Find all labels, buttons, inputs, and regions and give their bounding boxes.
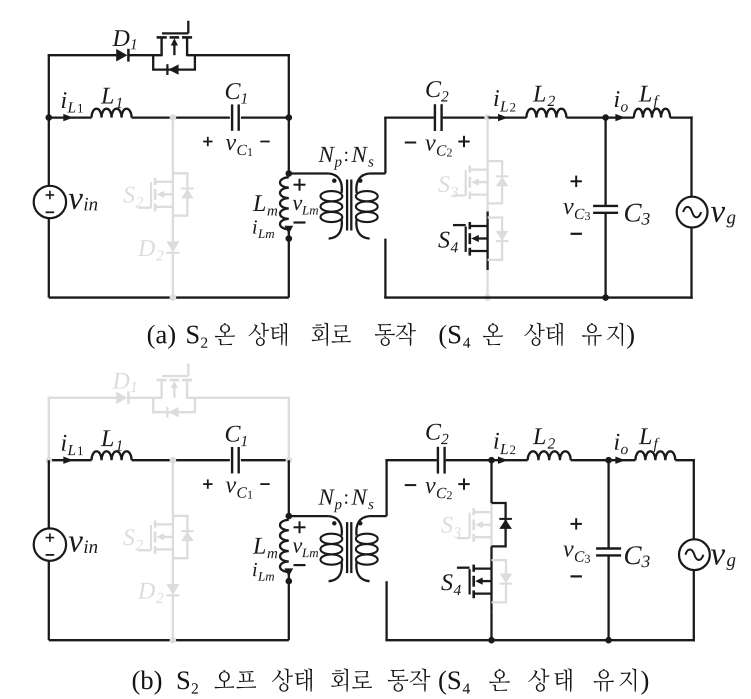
wire: left rail top segment [48, 55, 50, 117]
wire: right rail bottom [690, 227, 692, 298]
wire: top branch horizontal [48, 397, 117, 399]
label S2 [123, 529, 134, 545]
label C2 [426, 81, 441, 97]
inductor Lf [635, 451, 675, 460]
transformer primary winding [289, 515, 329, 517]
label S4 [438, 232, 449, 248]
wire: branch node to L2 [492, 459, 528, 461]
wire: top branch horizontal [48, 54, 117, 56]
node: main-right junction [286, 114, 293, 121]
label vin [69, 194, 83, 209]
label vC2 with - + [405, 484, 416, 486]
current arrow iLm (down) [288, 572, 290, 581]
node: Lm bottom [286, 235, 293, 242]
wire: bottom left [49, 296, 289, 298]
wire: main line left [49, 116, 92, 118]
wire: main line middle [132, 116, 230, 118]
label C1 [226, 426, 241, 442]
transistor S3 (gray) [470, 168, 488, 170]
node: main-left junction [46, 114, 53, 121]
wire: secondary bottom lead [385, 581, 387, 640]
label vC3 with + - [571, 523, 582, 525]
current arrow iL1 [63, 114, 73, 121]
wire: C2 to branch node [446, 459, 492, 461]
wire: main line right [241, 116, 289, 118]
diode D2 (gray) [166, 584, 179, 595]
wire: main line left [49, 459, 92, 461]
capacitor C1 [231, 104, 233, 130]
wire: D2 to bottom [172, 595, 174, 640]
inductor Lm (magnetizing) [280, 177, 289, 229]
label vg [711, 207, 725, 222]
wire: C3 bottom [607, 556, 609, 640]
voltage source vin [34, 528, 66, 560]
label D1 [112, 30, 129, 46]
wire: left rail bottom [48, 560, 50, 640]
transformer core [346, 522, 348, 573]
diode D2 (gray) [166, 241, 179, 252]
label io [615, 91, 620, 107]
inductor L1 [92, 109, 132, 118]
diode D1 [116, 49, 127, 62]
wire: C3 top [607, 460, 609, 547]
wire: S2 branch upper [172, 118, 174, 170]
inductor Lm (magnetizing) [280, 520, 289, 572]
transformer secondary winding [370, 172, 386, 174]
caption (a) [148, 325, 175, 349]
transistor S1 (top switch) [160, 380, 162, 399]
wire: branch node to S3 (gray) [486, 118, 488, 204]
label iL1 [62, 435, 67, 451]
transistor S4 [474, 567, 492, 569]
polarity dot primary [332, 521, 336, 525]
polarity dot primary [332, 179, 336, 183]
inductor L2 [528, 451, 571, 460]
label vC1 with + - [203, 141, 212, 143]
label C1 [226, 83, 241, 99]
label Np : Ns [318, 147, 335, 162]
node: S3 branch junction [488, 457, 495, 464]
node: C3 bottom junction [602, 294, 609, 301]
diode D1 [116, 392, 127, 405]
node: C3 top junction [602, 114, 609, 121]
label D2 [138, 240, 155, 256]
label S3 [438, 176, 449, 192]
wire: Lm bottom to bottom wire [288, 581, 290, 640]
wire: top branch right drop [288, 55, 290, 117]
label S4 [441, 574, 452, 590]
ac source vg [679, 539, 710, 570]
polarity dot secondary [358, 521, 362, 525]
label iLm [253, 220, 257, 233]
capacitor C3 [593, 205, 618, 207]
node: S2 branch junction (gray) [170, 457, 177, 464]
label Lf [639, 428, 652, 444]
diode: S3 body diode path (black) [492, 503, 506, 546]
wire: secondary top lead [385, 460, 387, 516]
wire: node2 to Lf [606, 116, 634, 118]
wire: C2 line left [385, 459, 436, 461]
label io [615, 434, 620, 450]
wire: branch node to L2 [488, 116, 527, 118]
wire: bottom left [49, 639, 289, 641]
current arrow iL2 [498, 114, 508, 121]
label vC1 with + - [203, 483, 212, 485]
inductor L2 [526, 109, 566, 118]
wire: main line middle [132, 459, 230, 461]
transformer primary winding [289, 172, 329, 174]
wire: C3 top [604, 118, 606, 205]
capacitor C3 [596, 547, 621, 549]
voltage source vin [34, 186, 66, 218]
node: S3 branch junction (gray) [484, 114, 491, 121]
transistor S4 [486, 212, 488, 271]
label C2 [426, 424, 441, 440]
node: S2 branch junction (gray) [170, 114, 177, 121]
node: S4 bottom junction (gray) [484, 294, 491, 301]
node: D2 bottom junction (gray) [170, 637, 177, 644]
wire: C2 to branch node [443, 116, 488, 118]
label iL2 [494, 90, 499, 106]
current arrow iL1 [63, 457, 73, 464]
wire: L2 to node2 [566, 116, 605, 118]
node: main-left junction (gray) [46, 457, 53, 464]
label vg [711, 550, 725, 565]
capacitor C2 [434, 104, 436, 131]
label Np : Ns [318, 490, 335, 505]
node: C3 bottom junction [605, 637, 612, 644]
label S3 [441, 517, 452, 533]
wire: secondary top lead [384, 118, 386, 174]
transformer core [346, 180, 348, 231]
label vin [69, 537, 83, 552]
node: main-right junction (gray) [286, 457, 293, 464]
wire: left rail top segment [48, 398, 50, 460]
wire: left rail bottom [48, 218, 50, 298]
wire: S4 to bottom (gray) [486, 270, 488, 298]
wire: L2 to node2 [571, 459, 609, 461]
current arrow io [615, 114, 625, 121]
label C3 [625, 546, 642, 564]
wire: right rail top [693, 459, 695, 539]
capacitor C2 [437, 447, 439, 474]
wire: C2 line left [384, 116, 434, 118]
label Lm [253, 195, 266, 211]
current arrow iL2 [498, 457, 508, 464]
label D2 [138, 583, 155, 599]
wire: Lf to right rail [670, 116, 693, 118]
label vC2 with - + [405, 142, 416, 144]
label L2 [533, 86, 546, 102]
node: Lm bottom [286, 578, 293, 585]
inductor Lf [634, 109, 670, 118]
wire: branch node to S3 [490, 460, 492, 503]
wire: right rail bottom [693, 570, 695, 641]
transformer secondary winding [370, 515, 387, 517]
label C3 [625, 204, 642, 222]
transistor S2 (gray) [172, 460, 174, 558]
wire: left rail to source [48, 118, 50, 187]
wire: S3 to S4 [490, 546, 492, 612]
wire: C3 bottom [604, 214, 606, 298]
label iL2 [494, 433, 499, 449]
transistor S1 (top switch) [160, 37, 162, 56]
wire: node2 to Lf [609, 459, 636, 461]
wire: S4 to bottom [490, 613, 492, 641]
wire: mid drop to transformer [288, 118, 290, 174]
node: C3 top junction [605, 457, 612, 464]
transistor S2 (gray) [172, 118, 174, 216]
wire: Lm bottom to bottom wire [288, 239, 290, 298]
current arrow io [615, 457, 625, 464]
inductor L1 [92, 451, 132, 460]
wire: left rail to source [48, 460, 50, 529]
label vLm with + - [294, 526, 306, 528]
node: D2 bottom junction (gray) [170, 294, 177, 301]
current arrow iLm (down) [288, 229, 290, 238]
wire: S2 to D2 [172, 558, 174, 584]
label Lf [639, 86, 652, 102]
wire: bottom right [385, 639, 695, 641]
label vLm with + - [294, 184, 306, 186]
wire: secondary bottom lead [384, 239, 386, 298]
polarity dot secondary [358, 179, 362, 183]
ac source vg [677, 197, 708, 228]
capacitor C1 [231, 447, 233, 473]
node: S4 bottom junction [488, 637, 495, 644]
label iLm [253, 563, 257, 576]
wire: S2 to D2 [172, 216, 174, 242]
wire: Lf to right rail [675, 459, 695, 461]
label L1 [101, 88, 114, 104]
wire: S2 branch upper [172, 460, 174, 512]
wire: D2 to bottom [172, 253, 174, 298]
label iL1 [62, 92, 67, 108]
caption (b) [133, 671, 162, 695]
label D1 [112, 373, 129, 389]
label L2 [533, 428, 546, 444]
wire: mid drop to transformer [288, 460, 290, 516]
label Lm [253, 538, 266, 554]
wire: right rail top [690, 116, 692, 196]
label L1 [101, 430, 114, 446]
node: Lm top [286, 513, 293, 520]
wire: top branch right drop [288, 398, 290, 460]
label S2 [123, 187, 134, 203]
wire: main line right [241, 459, 289, 461]
node: Lm top [286, 170, 293, 177]
wire: bottom right [384, 296, 693, 298]
wire: S3 to S4 (gray) [486, 203, 488, 211]
transistor S3 (gray, body diode conducting) [490, 503, 492, 546]
label vC3 with + - [571, 180, 582, 182]
